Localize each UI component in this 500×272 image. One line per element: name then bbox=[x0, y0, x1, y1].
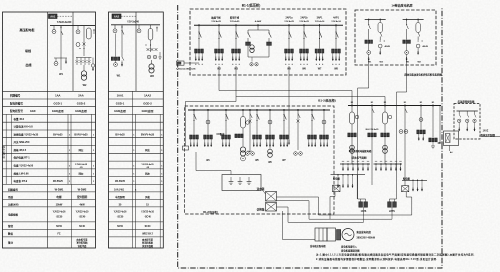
site boundary dash-dot line bbox=[178, 5, 442, 268]
B1-1 feeder W7 bbox=[319, 24, 321, 26]
distribution room B1-2 dashed enclosure bbox=[185, 106, 334, 214]
panel AA1 column divider bbox=[47, 12, 49, 248]
generator room dashed enclosure bbox=[355, 10, 436, 65]
B1-1 main busbar bbox=[194, 24, 343, 26]
panel AA2 feeder W1 wire bbox=[121, 25, 123, 57]
switch1 output wire branch bbox=[277, 200, 310, 202]
panel AA1 table header texts bbox=[10, 94, 88, 113]
B1-1 feeder W6 bbox=[303, 24, 305, 26]
B1-1 feeder W8 bbox=[335, 24, 337, 26]
fan secondary bus left feeder down bbox=[356, 175, 358, 199]
panel AA1 table inner verticals bbox=[6, 91, 91, 248]
panel AA2 cabinet frame bbox=[109, 12, 164, 248]
panel AA2 busbar bbox=[111, 24, 160, 26]
B1-2 feeder 9 bbox=[297, 109, 299, 111]
wire to right edge bbox=[481, 136, 500, 138]
B1-1 branch feeder pair bbox=[246, 20, 272, 66]
generator circle bbox=[342, 229, 354, 241]
capacitor feed wire bbox=[195, 152, 197, 171]
panel AA2 table body texts bbox=[115, 133, 163, 183]
panel AA2 feeder 2 fuse marks bbox=[147, 48, 150, 51]
emergency transfer stub down bbox=[449, 146, 451, 152]
panel AA1 feeder W1 wire bbox=[60, 26, 62, 58]
right switch box output wire bbox=[405, 192, 407, 197]
roof fan subbox feed arrows left bbox=[342, 161, 369, 170]
fire feeder 1 drawout breaker bbox=[351, 105, 353, 107]
panel AA2 feeder 2 wire bbox=[150, 40, 152, 52]
B1-1 feeder W2 tail wire to ATS bus bbox=[218, 66, 220, 91]
B1-2 feeder 6 bbox=[256, 109, 258, 111]
B1-2 feeder 5 bbox=[249, 109, 251, 111]
fire feeder 7 wire bbox=[439, 106, 441, 144]
ATS pair 2 boxes bbox=[388, 202, 392, 207]
panel AA1 branch arrow bbox=[65, 58, 67, 60]
generator control cabinet rects bbox=[315, 228, 327, 241]
B1-1 feeder W5 long tail into B1-2 bbox=[288, 66, 290, 140]
emergency transfer feed wire with arrow bbox=[438, 142, 444, 144]
panel AA1 feeder 2 sensor circle bbox=[77, 26, 79, 30]
panel AA1 feeder 2 meter circle bbox=[76, 43, 80, 47]
capacitor to switch link bbox=[261, 188, 266, 194]
B1-2 busbar bbox=[188, 109, 330, 111]
panel AA2 incoming label box bbox=[112, 14, 121, 19]
B1-1 incoming feeder bbox=[198, 24, 200, 26]
B1-1 feeder W3 tail wire to fire section bbox=[236, 96, 385, 98]
panel AA2 feeder W1 breaker slash bbox=[122, 57, 124, 61]
B1-2 feeder 8 bbox=[283, 109, 285, 111]
switch1 output wire bbox=[277, 196, 319, 198]
panel AA1 feeder 2 fuse marks bbox=[76, 58, 91, 66]
panel AA1 lower section texts bbox=[7, 188, 89, 248]
panel AA1 surge pair bbox=[91, 64, 94, 67]
panel AA1 incoming dashed link bbox=[57, 15, 73, 17]
panel AA2 table verticals bbox=[132, 91, 160, 248]
generator terminal hatched block bbox=[337, 230, 341, 241]
capacitor cabinet box bbox=[222, 175, 261, 191]
panel AA1 feeder W1 branch bar bbox=[54, 57, 67, 59]
B1-2 metering feeder bbox=[242, 109, 244, 111]
panel AA1 PT circle bbox=[53, 26, 55, 30]
panel AA1 feeder W1 breaker bbox=[60, 27, 62, 29]
panel AA2 PT lamp bbox=[115, 60, 117, 62]
panel AA2 schematic divider bbox=[135, 12, 137, 91]
fire feeder 6 bbox=[432, 105, 434, 107]
B1-1 incoming cable box bbox=[177, 61, 185, 65]
emergency transfer box inner mark bbox=[446, 134, 451, 143]
panel AA1 table row lines bbox=[3, 91, 96, 237]
fire section feeder tags bbox=[351, 102, 435, 104]
panel AA2 incoming dashed link bbox=[121, 15, 136, 17]
panel AA2 PT fuse cluster bbox=[111, 57, 113, 60]
transfer switch box 2 bbox=[266, 203, 277, 212]
fan secondary bus left bbox=[331, 174, 366, 176]
panel AA1 energy meter bbox=[83, 65, 85, 71]
panel AA2 feeder W1 arrow bbox=[121, 61, 123, 63]
generator cell1 tail wire bbox=[368, 58, 370, 88]
panel AA2 lower section texts bbox=[114, 189, 155, 248]
ATS pair 1 boxes bbox=[359, 202, 363, 207]
panel AA2 table row lines bbox=[109, 91, 164, 237]
B1-2 feeder 10 bbox=[311, 109, 313, 111]
B1-2 feeder 2 bbox=[207, 109, 209, 111]
fan secondary bus right bbox=[402, 179, 427, 181]
B1-2 feeder 3 bbox=[225, 109, 227, 111]
panel AA1 table body texts bbox=[13, 117, 95, 183]
distribution room B1-1 dashed enclosure bbox=[190, 9, 346, 75]
generator cell2 tail wire bbox=[406, 58, 408, 92]
fire feeder 5 bbox=[420, 105, 422, 107]
fire section busbar bbox=[348, 105, 441, 107]
emergency box feeders bbox=[458, 111, 477, 131]
switch2 bottom wire to generator cabinet bbox=[282, 211, 284, 240]
transfer switch box 1 bbox=[266, 192, 277, 202]
ATS output stubs bbox=[363, 207, 365, 222]
fan secondary bus right drops bbox=[412, 180, 423, 192]
panel AA1 feeder 2 CT marks bbox=[83, 43, 86, 46]
B1-2 feeder 7 bbox=[269, 109, 271, 111]
B1-2 feeder 11 bbox=[323, 109, 325, 111]
emergency transfer switch box bbox=[444, 131, 459, 146]
generator cell 1 bbox=[365, 19, 386, 21]
panel AA1 branch lamp circle bbox=[55, 58, 57, 62]
panel AA2 PT branch wire bbox=[115, 34, 117, 57]
roof fan subbox bus right bbox=[374, 163, 403, 165]
panel AA1 schematic divider bbox=[72, 12, 74, 91]
generator cell 2 bbox=[403, 19, 424, 21]
panel AA1 feeder W1 tail bbox=[60, 58, 62, 70]
B1-2 feeder 1 bbox=[193, 109, 195, 111]
emergency lighting dashed box bbox=[454, 104, 480, 140]
fire feeder 3 drawout breaker bbox=[384, 105, 386, 107]
fan transfer box right bbox=[402, 186, 409, 192]
panel AA1 incoming label box bbox=[49, 14, 58, 19]
panel AA2 energy meter bbox=[151, 60, 153, 64]
roof fan subbox feed arrows right bbox=[375, 161, 402, 170]
metering terminal box bbox=[183, 146, 189, 150]
fan transfer box left bbox=[333, 185, 341, 192]
panel AA2 surge circles bbox=[147, 55, 151, 59]
panel AA1 busbar bbox=[50, 25, 95, 27]
panel AA1 feeder 2 drawout breaker bbox=[87, 28, 92, 39]
panel AA1 feeder 2 branch bar bbox=[76, 57, 92, 59]
B1-1 feeder W5 bbox=[288, 24, 290, 26]
roof fan subbox bus left bbox=[340, 163, 370, 165]
ATS pair2 stub bbox=[389, 198, 396, 200]
capacitor symbols bbox=[229, 177, 252, 185]
B1-1 feeder W3 tail wire to metering box bbox=[235, 66, 237, 102]
fan box left tail wire bbox=[334, 192, 336, 197]
panel AA2 feeder 2 drawout breaker bbox=[150, 25, 152, 29]
emergency box busbar bbox=[457, 110, 478, 112]
fan secondary bus left drops bbox=[337, 174, 354, 188]
panel AA2 ground symbol bbox=[159, 52, 161, 57]
panel AA2 feeder 2 sensor circle bbox=[138, 25, 140, 29]
panel AA2 feeder 2 right tick bbox=[156, 27, 158, 29]
ATS pair1 stub bbox=[358, 198, 366, 200]
B1-1 feeder W2 bbox=[218, 24, 220, 26]
panel AA1 cabinet frame bbox=[3, 12, 96, 248]
panel AA1 feeder 2 wire bbox=[83, 26, 85, 56]
fire feeder 2 bbox=[371, 105, 373, 107]
fire feeder 4 bbox=[404, 105, 406, 107]
switch2 output wire bbox=[277, 206, 289, 208]
B1-1 feeder W3 bbox=[235, 24, 237, 26]
panel AA2 PT circle bbox=[114, 25, 116, 29]
panel AA2 table header texts bbox=[114, 94, 154, 113]
